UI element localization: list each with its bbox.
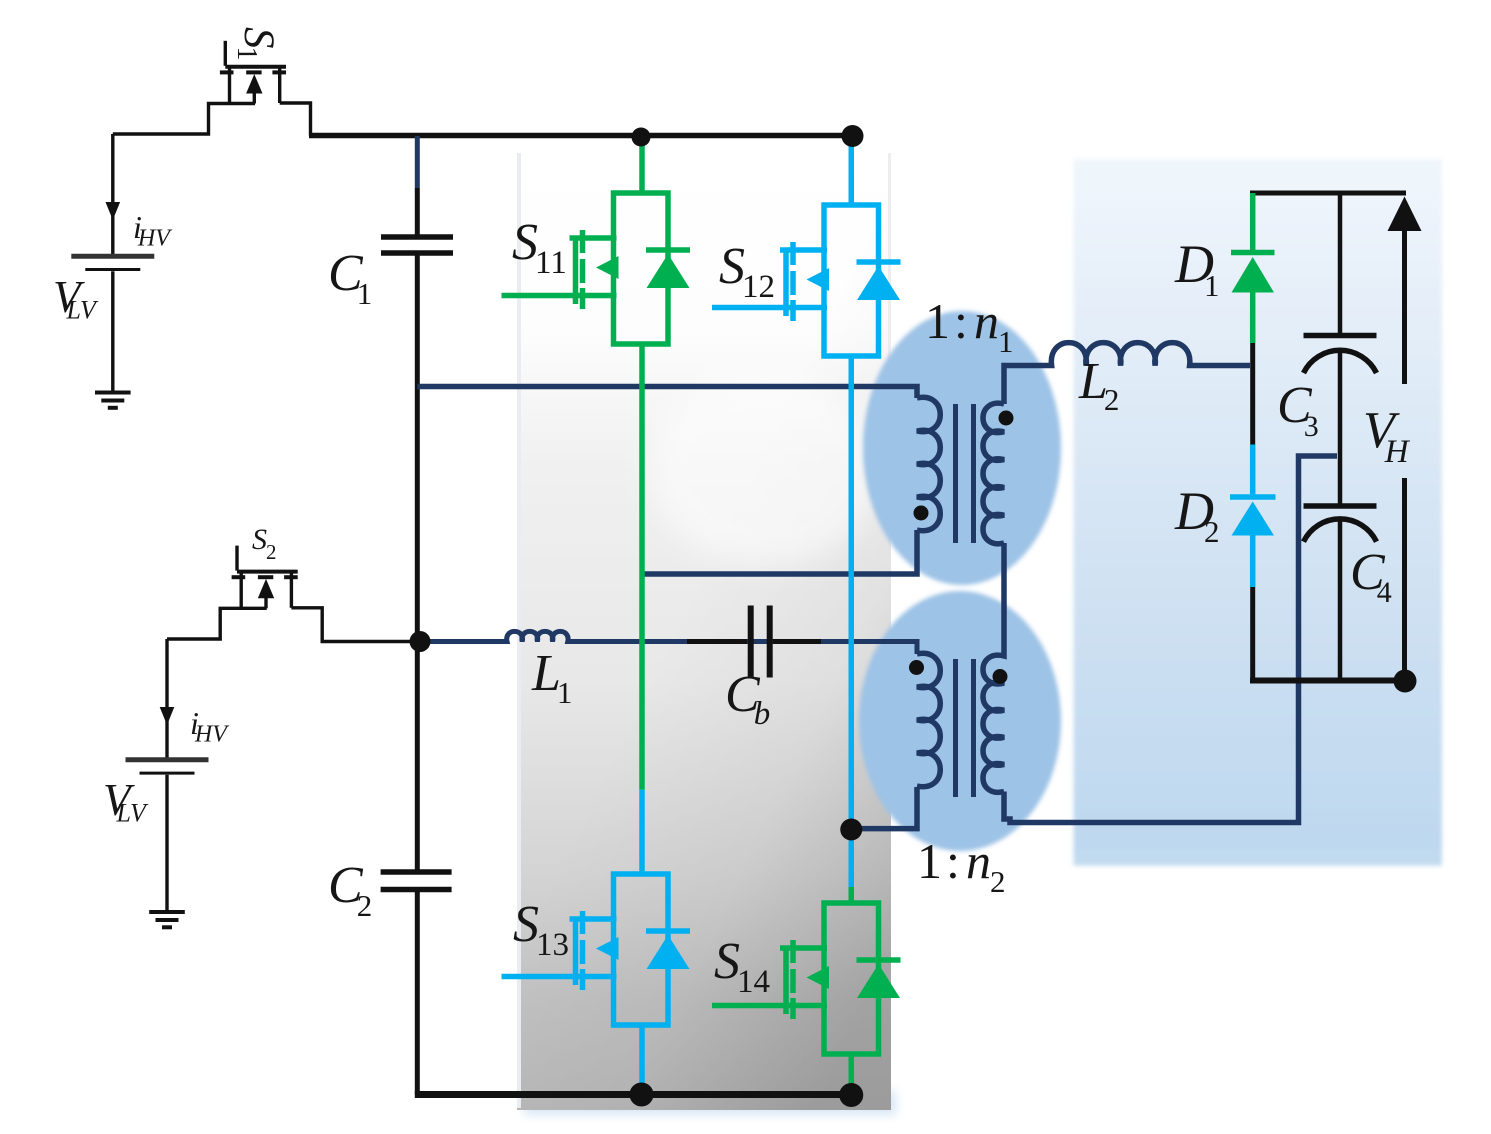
node: top rail / S12 bbox=[842, 125, 864, 147]
svg-text:D2: D2 bbox=[1174, 481, 1220, 549]
wire: S14 source to bottom rail bbox=[849, 1052, 855, 1096]
capacitor C3 bbox=[1304, 333, 1377, 339]
gray region faint left edge bbox=[517, 153, 521, 1108]
wire: output bottom rail bbox=[1250, 678, 1405, 684]
wire: S12 drain lead bbox=[849, 136, 855, 206]
wire: C3 top lead bbox=[1338, 193, 1343, 333]
wire: S11 source down to S13 (green) bbox=[639, 346, 645, 790]
capacitor C2 bbox=[381, 872, 452, 890]
wire: T2 primary bottom to node bbox=[852, 787, 917, 829]
wire: D2 cathode to bottom rail bbox=[1250, 587, 1255, 683]
T1 polarity dot secondary bbox=[999, 411, 1014, 426]
inductor L2 + wire to diode node bbox=[1004, 343, 1250, 404]
wire: S11 drain lead bbox=[639, 136, 645, 194]
T2 polarity dot secondary bbox=[993, 669, 1008, 684]
wire: C4 top lead bbox=[1338, 456, 1343, 504]
capacitor C1 bbox=[381, 237, 453, 253]
transformer T1 primary winding bbox=[917, 397, 940, 530]
battery B2 bbox=[126, 639, 209, 911]
diode D2 bbox=[1230, 445, 1276, 588]
T2 polarity dot primary bbox=[909, 660, 924, 675]
transistor S12 bbox=[712, 205, 901, 356]
gray region faint right edge bbox=[888, 153, 891, 437]
capacitor Cb bbox=[751, 606, 770, 678]
transistor S14 bbox=[712, 903, 901, 1054]
gray shaded bridge region bbox=[517, 153, 891, 1110]
gray shaded bridge region glow bbox=[524, 1091, 896, 1115]
wire: bottom rail bbox=[415, 1091, 854, 1098]
transformer T1 core bbox=[956, 404, 974, 543]
battery B1 bbox=[71, 134, 154, 391]
wire: diode midpoint (black) bbox=[1250, 343, 1255, 445]
wire: S12 source down to node (cyan) bbox=[849, 354, 855, 887]
node: T2 primary / S12-S14 bbox=[840, 819, 862, 841]
transformer ellipse T1 bbox=[863, 311, 1061, 585]
node: output bottom right bbox=[1394, 670, 1417, 693]
wire: T2 secondary bottom to capacitor midpoint bbox=[1004, 456, 1337, 823]
transistor S2 bbox=[167, 546, 418, 642]
capacitor C4 bbox=[1304, 503, 1377, 509]
wire: C3 bottom lead bbox=[1338, 352, 1343, 456]
shaded blue output region bbox=[1074, 159, 1443, 866]
wire: S13 drain lead (cyan) bbox=[639, 790, 645, 875]
wire: top rail bbox=[309, 133, 856, 139]
node: rail / L1 bbox=[410, 631, 431, 652]
transformer ellipse T2 bbox=[859, 591, 1061, 851]
wire: rail below C2 bbox=[415, 892, 420, 1095]
node: bottom rail / S14 bbox=[839, 1083, 863, 1107]
ground for B1 bbox=[95, 393, 131, 408]
wire: L1 / Cb branch bbox=[420, 631, 917, 654]
capacitor Cb black wire segment bbox=[687, 639, 821, 644]
wire: T1 primary top (from rail) bbox=[417, 387, 917, 399]
wire: rail segment above C1 bbox=[415, 188, 420, 235]
transistor S11 bbox=[502, 193, 691, 344]
transformer T1 secondary winding bbox=[983, 403, 1004, 544]
svg-text:D1: D1 bbox=[1174, 234, 1220, 303]
T1 polarity dot primary bbox=[914, 506, 929, 521]
transformer T2 primary winding bbox=[917, 653, 940, 786]
node: top rail / S11 bbox=[632, 128, 651, 147]
ground for B2 bbox=[149, 912, 185, 927]
transistor S13 bbox=[502, 874, 691, 1025]
wire: T1 primary bottom to green node bbox=[642, 530, 917, 574]
node: bottom rail / S13 bbox=[630, 1083, 654, 1107]
wire: output top rail bbox=[1250, 191, 1406, 196]
transistor S1 bbox=[113, 41, 311, 136]
arrow V_H bbox=[1388, 197, 1422, 682]
wire: navy stub below top rail bbox=[415, 136, 420, 188]
wire: S14 drain lead (green) bbox=[849, 887, 855, 904]
diode D1 bbox=[1231, 193, 1275, 343]
wire: S13 source to bottom rail bbox=[639, 1024, 645, 1094]
wire: C4 bottom lead bbox=[1338, 521, 1343, 682]
wire: rail between C1 and node bbox=[415, 256, 420, 870]
transformer T2 secondary winding + wire through T1 secondary bbox=[983, 543, 1004, 792]
transformer T2 core bbox=[956, 659, 974, 797]
